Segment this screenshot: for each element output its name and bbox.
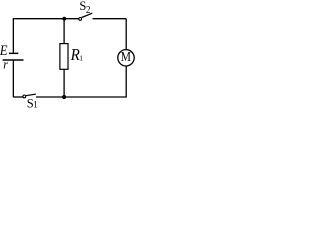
svg-text:M: M [121,49,131,64]
svg-text:2: 2 [86,5,91,16]
svg-text:1: 1 [33,100,38,110]
svg-text:1: 1 [79,53,83,62]
